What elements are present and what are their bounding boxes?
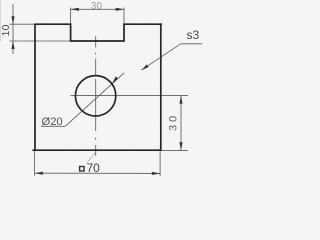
extension line notch bottom (10 dim, lower reference) — [10, 40, 71, 42]
extension line 30-top right — [123, 8, 125, 25]
leader s3 arrowhead — [141, 64, 148, 70]
arrow 30-top right — [116, 8, 124, 11]
extension line 70 left — [34, 151, 36, 176]
arrow 10 top (outside, points down) — [11, 16, 14, 24]
centerline vertical (hole axis) — [95, 36, 97, 156]
dimension line 30 right — [180, 96, 182, 151]
dimension line 70 bottom — [35, 172, 161, 174]
dimension line 30 top — [71, 8, 124, 10]
corner overshoot bottom-left — [32, 149, 35, 151]
arrow 70 right — [152, 172, 160, 175]
extension line top-left (10 dim, top reference) — [10, 23, 36, 25]
extension line 30-top left — [70, 8, 72, 25]
arrow 70 left — [35, 172, 43, 175]
plate outline with top notch — [35, 24, 161, 150]
svg-text:10: 10 — [1, 24, 12, 36]
arrow 10 bottom (outside, points up) — [11, 41, 14, 49]
svg-text:Ø20: Ø20 — [42, 116, 63, 128]
leader Ø20 arrowhead (tip on circle) — [112, 76, 118, 84]
leader Ø20 diagonal through hole — [65, 73, 124, 127]
square symbol of square-70 — [80, 167, 85, 172]
svg-text:30: 30 — [91, 1, 103, 12]
leader Ø20 shoulder — [41, 125, 65, 127]
leader s3 shoulder — [181, 43, 203, 45]
paper background — [0, 0, 210, 177]
svg-text:70: 70 — [87, 161, 101, 175]
hole circle Ø20 — [75, 76, 115, 116]
corner overshoot top-right — [161, 23, 162, 25]
arrow 30-right top (points up) — [179, 96, 182, 104]
svg-text:s3: s3 — [187, 28, 200, 42]
extension line bottom-right (30 dim, lower reference) — [161, 149, 188, 151]
svg-text:30: 30 — [168, 113, 180, 131]
stray scan mark near bottom centerline — [87, 152, 96, 164]
centerline horizontal (hole axis, continues as extension line of right dim) — [71, 95, 189, 97]
arrow 30-top left — [71, 8, 79, 11]
dimension line 10 (left) — [12, 4, 14, 54]
leader s3 diagonal — [141, 44, 181, 70]
arrow 30-right bottom (points down) — [179, 142, 182, 150]
scan artifact left edge — [0, 0, 2, 42]
extension line 70 right — [159, 151, 161, 176]
